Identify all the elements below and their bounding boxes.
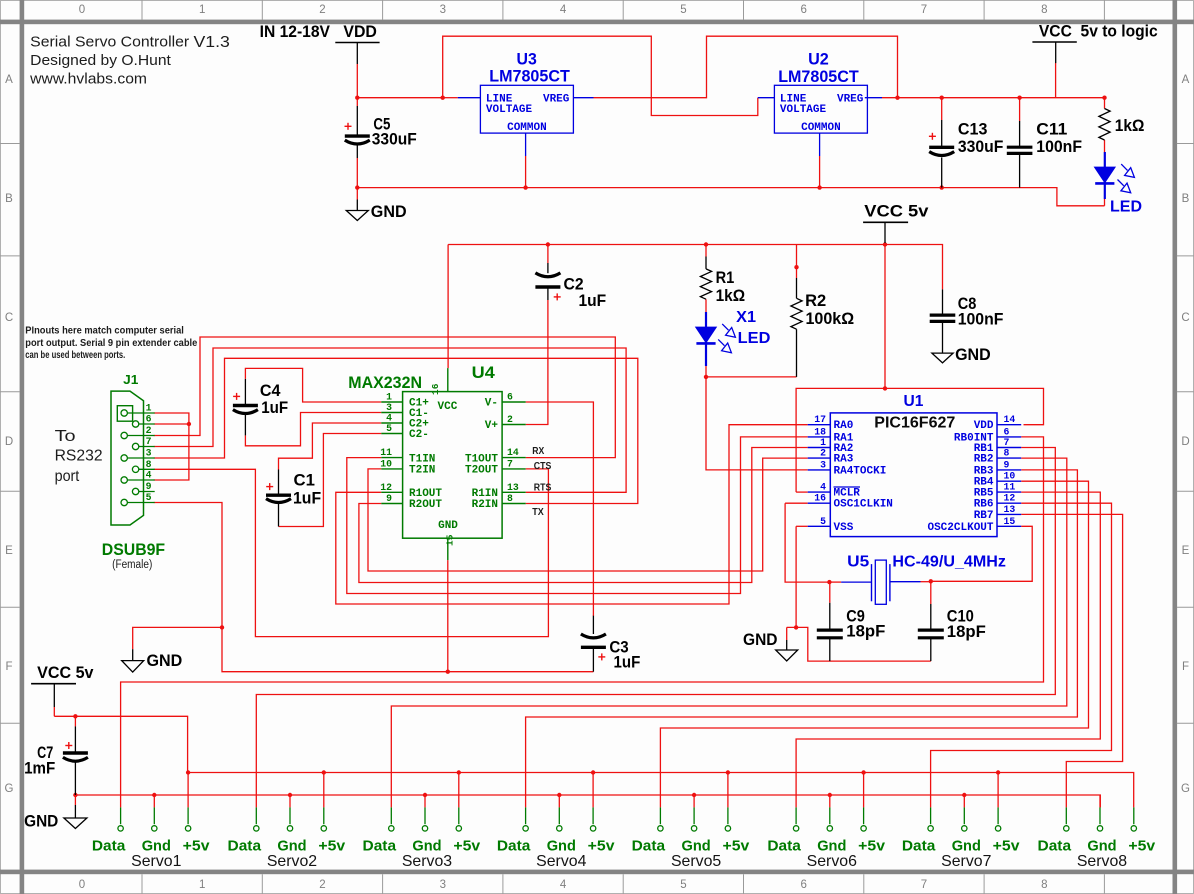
svg-text:T1IN: T1IN: [409, 453, 435, 465]
svg-text:T1OUT: T1OUT: [465, 453, 498, 465]
svg-text:Servo1: Servo1: [131, 853, 181, 870]
svg-text:E: E: [1182, 545, 1190, 557]
svg-text:6: 6: [800, 879, 806, 891]
svg-text:COMMON: COMMON: [507, 122, 547, 134]
svg-text:100nF: 100nF: [958, 311, 1004, 329]
svg-text:+5v: +5v: [1128, 837, 1155, 854]
svg-text:Data: Data: [767, 837, 801, 854]
svg-text:0: 0: [79, 4, 85, 16]
svg-text:C: C: [1181, 312, 1189, 324]
svg-text:6: 6: [800, 4, 806, 16]
svg-text:1uF: 1uF: [614, 654, 641, 672]
svg-text:+5v: +5v: [453, 837, 480, 854]
svg-text:DSUB9F: DSUB9F: [102, 541, 165, 559]
svg-text:+5v: +5v: [318, 837, 345, 854]
svg-text:T2IN: T2IN: [409, 465, 435, 477]
svg-text:11: 11: [380, 447, 392, 458]
svg-text:VSS: VSS: [834, 522, 854, 534]
svg-text:PIC16F627: PIC16F627: [874, 414, 955, 431]
svg-text:To: To: [55, 428, 76, 445]
svg-text:Servo7: Servo7: [941, 853, 991, 870]
svg-text:Data: Data: [363, 837, 397, 854]
svg-text:6: 6: [1004, 426, 1010, 437]
svg-text:2: 2: [146, 425, 152, 436]
svg-text:4: 4: [146, 470, 152, 481]
svg-text:1uF: 1uF: [293, 490, 321, 508]
svg-text:10: 10: [380, 458, 392, 469]
svg-text:RS232: RS232: [55, 448, 103, 465]
svg-text:330uF: 330uF: [958, 138, 1004, 156]
svg-text:7: 7: [146, 436, 152, 447]
svg-text:GND: GND: [147, 652, 183, 670]
svg-text:8: 8: [146, 459, 152, 470]
svg-text:3: 3: [820, 459, 826, 470]
svg-text:13: 13: [507, 482, 519, 493]
svg-text:can be used between ports.: can be used between ports.: [25, 350, 125, 361]
svg-text:PInouts here match computer se: PInouts here match computer serial: [25, 325, 184, 336]
svg-text:Servo8: Servo8: [1077, 853, 1127, 870]
svg-text:D: D: [5, 436, 13, 448]
svg-text:5: 5: [820, 516, 826, 527]
svg-text:GND: GND: [371, 203, 407, 221]
svg-text:U4: U4: [472, 364, 496, 382]
svg-text:4: 4: [386, 413, 392, 424]
svg-text:LM7805CT: LM7805CT: [778, 68, 859, 86]
svg-text:R1IN: R1IN: [472, 488, 498, 500]
svg-text:18pF: 18pF: [846, 623, 885, 641]
svg-text:11: 11: [1004, 482, 1016, 493]
svg-text:RB2: RB2: [974, 454, 994, 466]
svg-text:B: B: [1182, 193, 1190, 205]
svg-text:E: E: [5, 545, 13, 557]
svg-text:GND: GND: [438, 520, 458, 532]
svg-text:VCC: VCC: [438, 401, 458, 413]
svg-text:port output. Serial 9 pin exte: port output. Serial 9 pin extender cable: [25, 338, 197, 349]
svg-text:V1.3: V1.3: [194, 34, 230, 51]
svg-text:1: 1: [386, 392, 392, 403]
svg-text:VREG: VREG: [543, 94, 570, 106]
svg-text:7: 7: [921, 879, 927, 891]
svg-text:14: 14: [507, 447, 519, 458]
svg-text:(Female): (Female): [112, 559, 152, 571]
svg-text:17: 17: [814, 414, 826, 425]
svg-text:2: 2: [319, 879, 325, 891]
svg-text:GND: GND: [743, 631, 778, 649]
svg-text:15: 15: [1004, 516, 1016, 527]
svg-text:X1: X1: [736, 309, 756, 326]
svg-text:1: 1: [199, 4, 205, 16]
svg-text:U3: U3: [517, 51, 537, 69]
svg-text:10: 10: [1004, 471, 1016, 482]
svg-text:12: 12: [380, 482, 392, 493]
svg-text:8: 8: [1041, 879, 1047, 891]
svg-text:+5v: +5v: [993, 837, 1020, 854]
svg-text:8: 8: [1041, 4, 1047, 16]
svg-text:Gnd: Gnd: [412, 837, 441, 854]
svg-text:7: 7: [507, 458, 513, 469]
svg-text:9: 9: [146, 481, 152, 492]
svg-text:1: 1: [199, 879, 205, 891]
svg-text:Servo2: Servo2: [267, 853, 317, 870]
svg-text:Gnd: Gnd: [1087, 837, 1116, 854]
svg-text:2: 2: [507, 414, 513, 425]
svg-text:Gnd: Gnd: [952, 837, 981, 854]
svg-text:100kΩ: 100kΩ: [806, 310, 855, 328]
svg-text:G: G: [1181, 783, 1190, 795]
svg-text:G: G: [5, 783, 14, 795]
svg-text:Gnd: Gnd: [817, 837, 846, 854]
svg-text:Servo3: Servo3: [402, 853, 452, 870]
svg-text:8: 8: [1004, 448, 1010, 459]
svg-text:3: 3: [386, 402, 392, 413]
svg-text:Data: Data: [497, 837, 531, 854]
svg-text:Serial Servo Controller: Serial Servo Controller: [30, 34, 189, 51]
svg-text:V-: V-: [485, 398, 498, 410]
svg-text:4: 4: [560, 879, 567, 891]
svg-text:C2-: C2-: [409, 429, 429, 441]
svg-text:18pF: 18pF: [947, 623, 986, 641]
svg-text:U2: U2: [808, 51, 829, 69]
svg-text:U1: U1: [904, 393, 924, 410]
svg-text:330uF: 330uF: [372, 130, 417, 148]
svg-text:OSC1CLKIN: OSC1CLKIN: [834, 499, 893, 511]
svg-text:LM7805CT: LM7805CT: [489, 68, 570, 86]
svg-text:R1: R1: [716, 269, 735, 287]
svg-text:9: 9: [1004, 459, 1010, 470]
svg-text:A: A: [5, 74, 13, 86]
svg-text:Servo4: Servo4: [536, 853, 586, 870]
svg-text:VOLTAGE: VOLTAGE: [486, 104, 533, 116]
svg-text:D: D: [1181, 436, 1189, 448]
svg-text:RX: RX: [532, 446, 544, 457]
svg-text:Data: Data: [902, 837, 936, 854]
svg-text:18: 18: [814, 426, 826, 437]
svg-text:R2OUT: R2OUT: [409, 499, 442, 511]
svg-text:U5: U5: [847, 553, 870, 570]
svg-text:Data: Data: [228, 837, 262, 854]
svg-text:2: 2: [319, 4, 325, 16]
svg-text:100nF: 100nF: [1036, 138, 1082, 156]
svg-text:RA0: RA0: [834, 420, 854, 432]
svg-text:C11: C11: [1036, 121, 1067, 139]
svg-text:6: 6: [146, 414, 152, 425]
svg-text:1: 1: [820, 437, 826, 448]
svg-text:Servo5: Servo5: [671, 853, 721, 870]
svg-text:RB6: RB6: [974, 499, 994, 511]
svg-text:1kΩ: 1kΩ: [1115, 117, 1145, 135]
svg-text:4: 4: [560, 4, 567, 16]
svg-text:4: 4: [820, 482, 826, 493]
svg-text:16: 16: [814, 493, 826, 504]
svg-text:5: 5: [386, 423, 392, 434]
svg-text:J1: J1: [123, 372, 138, 387]
svg-text:VCC 5v to logic: VCC 5v to logic: [1039, 23, 1158, 41]
svg-text:7: 7: [1004, 437, 1010, 448]
svg-text:VREG: VREG: [837, 94, 864, 106]
svg-text:+5v: +5v: [858, 837, 885, 854]
svg-text:14: 14: [1004, 414, 1016, 425]
svg-text:www.hvlabs.com: www.hvlabs.com: [29, 70, 147, 87]
svg-text:8: 8: [507, 493, 513, 504]
svg-text:RB3: RB3: [974, 465, 994, 477]
svg-text:Gnd: Gnd: [547, 837, 576, 854]
svg-text:B: B: [5, 193, 13, 205]
svg-text:3: 3: [440, 879, 446, 891]
svg-text:2: 2: [820, 448, 826, 459]
svg-text:VOLTAGE: VOLTAGE: [780, 104, 827, 116]
svg-text:GND: GND: [24, 813, 58, 831]
svg-text:T2OUT: T2OUT: [465, 465, 498, 477]
svg-text:0: 0: [79, 879, 85, 891]
svg-text:+5v: +5v: [723, 837, 750, 854]
svg-text:5: 5: [146, 492, 152, 503]
svg-text:5: 5: [680, 879, 686, 891]
svg-text:3: 3: [440, 4, 446, 16]
svg-text:R2: R2: [805, 292, 826, 310]
svg-text:LED: LED: [738, 330, 771, 347]
svg-text:+5v: +5v: [588, 837, 615, 854]
svg-text:VDD: VDD: [343, 23, 377, 41]
svg-text:Servo6: Servo6: [807, 853, 857, 870]
svg-text:F: F: [5, 661, 12, 673]
svg-text:12: 12: [1004, 493, 1016, 504]
svg-text:6: 6: [507, 392, 513, 403]
svg-text:port: port: [55, 468, 80, 485]
svg-text:C4: C4: [260, 382, 281, 400]
svg-text:IN 12-18V: IN 12-18V: [260, 23, 330, 41]
svg-text:Data: Data: [92, 837, 126, 854]
svg-text:Data: Data: [632, 837, 666, 854]
svg-text:F: F: [1182, 661, 1189, 673]
svg-text:CTS: CTS: [534, 461, 552, 472]
svg-text:LED: LED: [1110, 199, 1142, 216]
svg-text:Gnd: Gnd: [682, 837, 711, 854]
svg-text:RA4TOCKI: RA4TOCKI: [834, 465, 887, 477]
svg-text:MAX232N: MAX232N: [348, 374, 422, 392]
svg-text:C2: C2: [564, 275, 584, 293]
svg-text:R2IN: R2IN: [472, 499, 498, 511]
svg-text:7: 7: [921, 4, 927, 16]
svg-text:C1: C1: [294, 472, 315, 490]
svg-text:GND: GND: [955, 346, 991, 364]
svg-text:C13: C13: [958, 121, 988, 139]
svg-text:16: 16: [430, 383, 441, 395]
svg-text:VCC 5v: VCC 5v: [37, 664, 94, 682]
svg-text:1uF: 1uF: [579, 292, 607, 310]
svg-text:Gnd: Gnd: [277, 837, 306, 854]
svg-text:3: 3: [146, 448, 152, 459]
svg-text:VCC 5v: VCC 5v: [864, 203, 929, 221]
svg-text:1: 1: [146, 403, 152, 414]
svg-text:5: 5: [680, 4, 686, 16]
svg-text:RB7: RB7: [974, 510, 994, 522]
svg-text:R1OUT: R1OUT: [409, 488, 442, 500]
svg-text:VDD: VDD: [974, 420, 994, 432]
svg-text:1kΩ: 1kΩ: [716, 287, 746, 305]
svg-text:+5v: +5v: [183, 837, 210, 854]
svg-text:HC-49/U_4MHz: HC-49/U_4MHz: [892, 553, 1006, 570]
svg-text:C: C: [5, 312, 13, 324]
svg-text:1uF: 1uF: [261, 399, 288, 417]
svg-text:15: 15: [444, 534, 455, 546]
svg-text:Data: Data: [1038, 837, 1072, 854]
svg-text:V+: V+: [485, 420, 499, 432]
svg-text:COMMON: COMMON: [801, 122, 841, 134]
svg-text:9: 9: [386, 493, 392, 504]
svg-text:A: A: [1182, 74, 1190, 86]
svg-text:OSC2CLKOUT: OSC2CLKOUT: [927, 522, 993, 534]
svg-text:Gnd: Gnd: [142, 837, 171, 854]
svg-text:Designed by O.Hunt: Designed by O.Hunt: [30, 52, 172, 69]
svg-text:1mF: 1mF: [24, 760, 55, 778]
svg-text:13: 13: [1004, 504, 1016, 515]
svg-text:TX: TX: [532, 507, 544, 518]
svg-text:RA3: RA3: [834, 454, 854, 466]
svg-text:RTS: RTS: [534, 483, 552, 494]
